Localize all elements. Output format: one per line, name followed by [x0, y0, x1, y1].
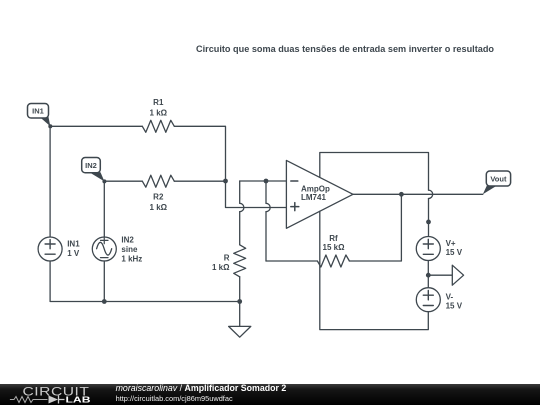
- svg-text:IN2: IN2: [85, 161, 97, 170]
- junction dot R ground rail: [237, 299, 242, 304]
- resistor R: [234, 245, 246, 277]
- svg-text:V+: V+: [446, 239, 456, 248]
- voltage source V+ labels: [446, 239, 463, 257]
- wire R1 right to junction: [174, 126, 225, 181]
- logo resistor squiggle: [10, 397, 48, 403]
- wire V+ to V-: [427, 261, 429, 288]
- svg-text:moraiscarolinav / Amplificador: moraiscarolinav / Amplificador Somador 2: [116, 383, 287, 393]
- resistor R1 labels: [150, 98, 168, 118]
- wire R2 right to junction: [174, 180, 225, 182]
- wire summing node to op-amp + input: [226, 181, 287, 208]
- svg-text:R2: R2: [153, 192, 164, 201]
- voltage source IN1 labels: [67, 240, 80, 259]
- junction dot IN2 anchor: [102, 179, 106, 183]
- title text: [196, 44, 495, 54]
- svg-text:15 V: 15 V: [446, 248, 463, 257]
- resistor R2 labels: [150, 192, 168, 212]
- svg-text:Vout: Vout: [490, 174, 507, 183]
- op-amp U1 triangle: [286, 160, 353, 228]
- wire - net drop to R (with hop over + wire): [239, 181, 241, 245]
- svg-text:http://circuitlab.com/cj86m95u: http://circuitlab.com/cj86m95uwdfac: [116, 394, 233, 403]
- wire hop V+ line over output: [429, 190, 433, 198]
- svg-text:1 V: 1 V: [67, 249, 80, 258]
- svg-text:IN2: IN2: [121, 236, 134, 245]
- junction dot - net Rf branch: [264, 179, 269, 184]
- voltage source V+: [416, 237, 440, 261]
- svg-text:R1: R1: [153, 98, 164, 107]
- voltage source IN2 labels: [121, 236, 142, 264]
- junction dot V+ top wire: [426, 220, 431, 225]
- junction dot V+/V- node: [426, 273, 431, 278]
- wire IN1 flag drop to source: [49, 126, 51, 237]
- svg-text:IN1: IN1: [67, 240, 80, 249]
- op-amp plus input symbol: [291, 203, 299, 211]
- wire IN1 bottom to ground rail: [50, 261, 240, 302]
- svg-text:15 kΩ: 15 kΩ: [323, 243, 346, 252]
- svg-text:Rf: Rf: [329, 234, 338, 243]
- svg-text:IN1: IN1: [32, 107, 44, 116]
- logo diode: [49, 396, 59, 404]
- svg-text:1 kΩ: 1 kΩ: [212, 263, 230, 272]
- wire hop at Rf drop: [266, 203, 270, 211]
- voltage source IN1: [38, 237, 62, 261]
- voltage source V- labels: [446, 293, 463, 311]
- svg-text:Circuito que soma duas tensões: Circuito que soma duas tensões de entrad…: [196, 44, 495, 54]
- op-amp minus input symbol: [291, 180, 298, 182]
- svg-text:R: R: [224, 254, 230, 263]
- resistor R2: [142, 175, 174, 187]
- wire hop at R drop: [240, 203, 244, 211]
- wire - net drop to Rf (with hop over + wire): [265, 181, 267, 261]
- junction dot output/Rf: [399, 192, 404, 197]
- wire op-amp output: [353, 193, 483, 195]
- junction dot R1/R2 summing node: [223, 179, 228, 184]
- wire IN2 flag drop to source: [103, 181, 105, 237]
- svg-text:1 kΩ: 1 kΩ: [150, 203, 168, 212]
- voltage source IN2 (sine): [92, 237, 116, 261]
- wire Rf right lead up to output: [349, 194, 401, 261]
- node flag IN1: [40, 117, 50, 126]
- resistor R1: [142, 120, 174, 132]
- svg-text:V-: V-: [446, 293, 454, 302]
- op-amp name labels: [301, 185, 330, 203]
- wire to node arrow: [428, 274, 452, 276]
- wire Rf left lead: [266, 260, 317, 262]
- wire IN2 bottom to ground rail: [103, 261, 105, 302]
- wire op-amp - input net horizontal: [240, 180, 287, 182]
- svg-text:1 kΩ: 1 kΩ: [150, 109, 168, 118]
- node flag IN2: [90, 172, 105, 181]
- svg-text:1 kHz: 1 kHz: [121, 255, 142, 264]
- ground symbol: [229, 326, 251, 337]
- junction dot IN1 anchor: [48, 124, 52, 128]
- resistor Rf labels: [323, 234, 346, 252]
- svg-text:LM741: LM741: [301, 193, 326, 202]
- wire IN2 to R2 left lead: [104, 180, 142, 182]
- wire IN1 horizontal left lead: [50, 125, 142, 127]
- svg-text:LAB: LAB: [66, 396, 92, 405]
- wire op-amp V- pin loop: [320, 211, 429, 329]
- junction dot IN2 ground rail: [102, 299, 107, 304]
- resistor Rf: [317, 255, 349, 267]
- svg-text:sine: sine: [121, 245, 138, 254]
- wire R bottom to ground junction: [239, 277, 241, 327]
- node reference arrow: [452, 265, 463, 285]
- resistor R labels: [212, 254, 230, 273]
- voltage source V-: [416, 288, 440, 312]
- node flag Vout: [483, 185, 498, 194]
- wire op-amp V+ pin loop: [320, 153, 429, 237]
- svg-text:15 V: 15 V: [446, 302, 463, 311]
